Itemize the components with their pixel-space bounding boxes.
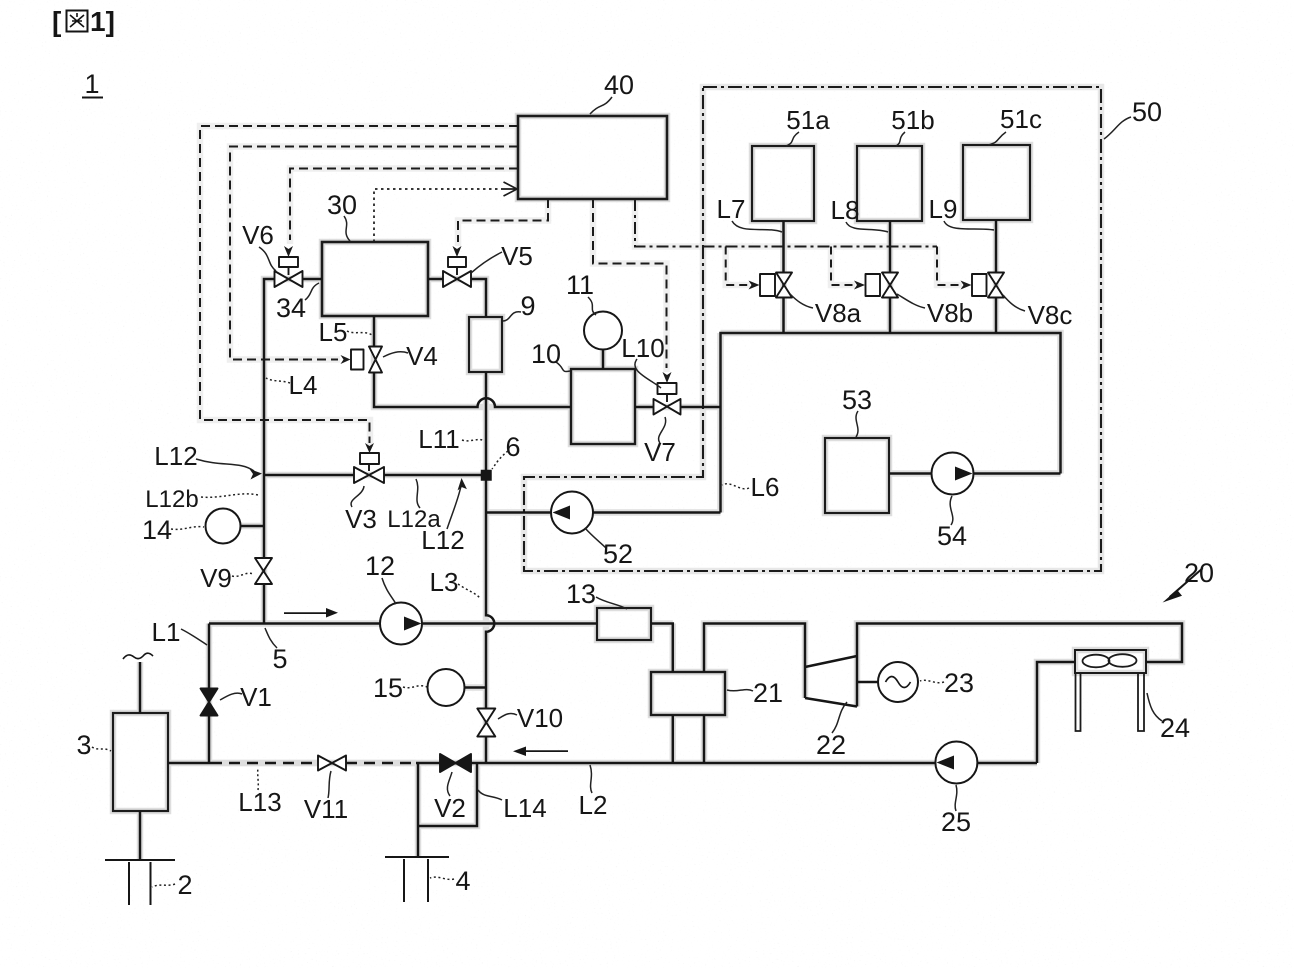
svg-text:V11: V11 [304, 794, 348, 824]
valve V8b with pilot box [866, 273, 899, 298]
leader V11 [328, 771, 331, 798]
leader 51a [786, 132, 799, 146]
svg-text:L9: L9 [929, 194, 958, 224]
arrowhead of L12 lower leader [458, 478, 467, 491]
air-cooler box 24 [1075, 650, 1146, 673]
sensor 15 [428, 669, 465, 706]
svg-text:12: 12 [365, 551, 395, 581]
leader 54 [950, 496, 953, 525]
arrowhead into V8a pilot [749, 281, 760, 290]
svg-text:V6: V6 [242, 220, 274, 250]
leader V10 [498, 714, 517, 719]
node 6 junction [482, 471, 491, 480]
wire box30 to V5 [428, 278, 443, 281]
arrowhead of L12 upper leader [250, 469, 263, 480]
wire L3/L12 vertical with hop over L1 [486, 372, 494, 763]
leader V8a [790, 294, 813, 308]
svg-text:V2: V2 [434, 793, 466, 823]
leader 6 [492, 451, 508, 469]
wire L2 solid right part [416, 762, 1037, 765]
leader 4 [430, 877, 454, 879]
svg-text:V9: V9 [200, 563, 232, 593]
control drop to V8c [937, 247, 960, 286]
leader 12 [382, 578, 396, 604]
svg-text:3: 3 [76, 730, 91, 760]
valve V1 (closed, filled) [201, 689, 218, 716]
svg-text:[: [ [52, 6, 61, 37]
leader 11 [588, 297, 596, 315]
svg-text:V8a: V8a [815, 298, 862, 328]
wire L12 horizontal left of V3 [264, 474, 354, 477]
svg-text:V4: V4 [406, 341, 438, 371]
wire L5 lower and L11 horizontal with hop over vertical [374, 373, 571, 407]
svg-text:V8c: V8c [1028, 300, 1073, 330]
leader 40 [590, 97, 612, 114]
svg-text:L7: L7 [717, 194, 746, 224]
svg-text:L10: L10 [621, 333, 664, 363]
control drop to V8a [726, 247, 748, 286]
valve V4 with pilot box [351, 347, 382, 373]
fan blade right (24) [1109, 654, 1137, 667]
leader V2 [447, 772, 452, 796]
device box 9 [469, 317, 502, 372]
leader L5 [347, 331, 372, 335]
arrowhead into V3 pilot [365, 443, 374, 453]
wire sensor 14 stub [240, 525, 264, 528]
svg-text:L11: L11 [418, 424, 459, 454]
svg-text:14: 14 [142, 515, 172, 545]
wire to supply 4 [417, 763, 420, 857]
valve V5 [443, 257, 471, 287]
generator 23 [878, 662, 918, 702]
leader V7 [659, 417, 666, 443]
wire condenser riser to turbine inlet [704, 624, 805, 699]
leader 50 [1104, 117, 1131, 139]
svg-text:50: 50 [1132, 97, 1162, 127]
wire tank bottom stub [139, 811, 142, 860]
wire L14 bypass loop [418, 763, 477, 826]
wire condenser 21 outlet left [672, 715, 675, 763]
wire L13 dashed segment b [346, 762, 416, 765]
leader L12a [416, 479, 420, 508]
wire L12b / L4 vertical with V6 branch [264, 279, 275, 624]
arrowhead into V6 pilot [284, 246, 293, 257]
arrowhead into V5 pilot [453, 246, 462, 257]
leader V8c [1003, 295, 1025, 311]
arrowhead into V7 pilot [663, 372, 672, 383]
svg-text:V3: V3 [345, 504, 377, 534]
consumer box 51a [752, 146, 814, 221]
control drop to V8b [831, 247, 853, 286]
leader 10 [556, 362, 570, 372]
wire L6 [486, 511, 721, 514]
leader L4 [266, 378, 290, 383]
svg-text:5: 5 [272, 644, 287, 674]
wire tank top stub [139, 662, 142, 713]
svg-text:V7: V7 [644, 437, 676, 467]
flow arrow on L2 [513, 747, 568, 757]
facility boundary 50 (chain line) [524, 87, 1101, 571]
arrow leader of label 20 [1163, 568, 1204, 603]
svg-text:L5: L5 [319, 317, 348, 347]
svg-text:15: 15 [373, 673, 403, 703]
svg-text:1]: 1] [90, 6, 115, 37]
valve V10 [477, 709, 495, 737]
leader L2 [590, 765, 592, 793]
svg-text:51a: 51a [786, 105, 830, 135]
leader 53 [856, 411, 858, 437]
device box 13 [597, 608, 651, 640]
valve V6 [275, 257, 303, 287]
arrowhead into V8b pilot [854, 281, 865, 290]
wire box10 to V7 [635, 406, 654, 409]
wire V5 to box 9 [471, 279, 486, 317]
consumer box 51b [857, 146, 922, 221]
svg-text:L2: L2 [579, 790, 608, 820]
wire V1 branch vertical [208, 624, 211, 764]
control bus 40 to V8 valves [635, 199, 937, 247]
pump 54 [932, 453, 974, 495]
sensor arrow into controller 40 [502, 182, 517, 196]
cooler leg left [1076, 673, 1081, 731]
leader 22 [832, 702, 847, 733]
svg-text:6: 6 [505, 432, 520, 462]
wire box53 to pump54 to manifold [889, 472, 1061, 475]
leader 9 [503, 312, 521, 321]
flow arrow on L1 [284, 608, 338, 618]
leader V4 [383, 352, 408, 357]
svg-text:21: 21 [753, 678, 783, 708]
svg-text:51c: 51c [1000, 104, 1042, 134]
svg-text:13: 13 [566, 579, 596, 609]
svg-text:52: 52 [603, 539, 633, 569]
leader V9 [232, 573, 253, 576]
svg-text:9: 9 [520, 291, 535, 321]
svg-text:20: 20 [1184, 558, 1214, 588]
svg-text:L12b: L12b [145, 486, 198, 513]
kanji 図 glyph [67, 11, 88, 32]
controller box 40 [518, 116, 667, 199]
leader V5 [471, 252, 502, 273]
turbine 22 right side and steam line to cooler [857, 624, 1182, 707]
consumer box 51c [963, 145, 1030, 220]
leader 34 [305, 283, 319, 300]
svg-text:53: 53 [842, 385, 872, 415]
svg-text:L8: L8 [831, 195, 860, 225]
valve V8a with pilot box [760, 273, 792, 298]
leader L14 [478, 790, 502, 800]
svg-text:23: 23 [944, 668, 974, 698]
svg-text:L14: L14 [503, 793, 546, 823]
leader 25 [955, 785, 957, 811]
turbine 22 top slant [805, 656, 857, 667]
control line 40 to V5 [458, 199, 548, 242]
valve V11 [318, 756, 346, 771]
wire L13 dashed segment a [211, 762, 318, 765]
leader V3 [351, 486, 364, 507]
svg-text:4: 4 [455, 866, 470, 896]
leader L12 upper with arrow [196, 459, 254, 471]
leader L12b [201, 494, 258, 497]
arrowhead into V8c pilot [961, 281, 972, 290]
cooler leg right [1138, 673, 1144, 731]
svg-text:L6: L6 [751, 472, 780, 502]
leader 2 [152, 884, 175, 887]
leader 23 [920, 680, 944, 683]
leader 51b [896, 132, 905, 146]
tank top break squiggle [123, 653, 153, 659]
svg-text:V5: V5 [501, 241, 533, 271]
leader 51c [988, 132, 1006, 145]
svg-text:V8b: V8b [927, 298, 973, 328]
leader L7 [732, 221, 782, 232]
supply symbol 4 [385, 857, 449, 902]
svg-text:1: 1 [84, 69, 99, 99]
leader 5 [265, 628, 277, 648]
leader L9 [944, 221, 994, 230]
svg-text:L12: L12 [421, 525, 464, 555]
wire cooler outlet to L2 [1037, 662, 1075, 763]
leader V6 [259, 247, 276, 271]
svg-text:L12: L12 [154, 441, 197, 471]
svg-text:V10: V10 [517, 703, 563, 733]
svg-text:30: 30 [327, 190, 357, 220]
valve V9 [255, 558, 272, 584]
wire V7 to manifold [680, 406, 721, 409]
wire condenser 21 outlet right [703, 715, 706, 763]
device box 53 [825, 438, 889, 513]
svg-text:34: 34 [276, 293, 306, 323]
svg-text:25: 25 [941, 807, 971, 837]
arrowhead into V4 pilot [341, 355, 351, 364]
wire L2 solid left part [168, 762, 211, 765]
wire sensor 15 stub [464, 686, 486, 689]
leader 52 [585, 528, 606, 548]
wire L12a horizontal right of V3 [384, 474, 484, 477]
leader L12 lower with arrow [447, 486, 461, 529]
sensor 14 [206, 509, 241, 544]
wire L5 vertical upper [373, 316, 376, 346]
leader V8b [897, 294, 925, 308]
svg-text:L4: L4 [289, 370, 318, 400]
control line 40 to V3 [200, 126, 518, 443]
manifold box (51 header) [721, 333, 1061, 513]
leader 14 [171, 527, 204, 530]
pump 25 [935, 742, 977, 784]
vaporizer box 30 [322, 242, 428, 316]
control line 40 to V4 [230, 147, 518, 360]
control line L10 (40 to V7) [593, 199, 667, 368]
svg-text:L1: L1 [152, 617, 181, 647]
leader 30 [344, 216, 350, 241]
tank 3 [113, 713, 168, 811]
supply symbol 2 [105, 860, 175, 905]
fan blade left (24) [1083, 655, 1110, 668]
valve V2 (closed, filled) [440, 754, 471, 772]
svg-text:40: 40 [604, 70, 634, 100]
wire L7 drop 51a [782, 221, 785, 333]
leader 21 [727, 690, 753, 691]
svg-text:22: 22 [816, 730, 846, 760]
wire V6 to box 30 [303, 278, 323, 281]
svg-text:L13: L13 [238, 787, 281, 817]
svg-text:L3: L3 [430, 567, 459, 597]
svg-text:2: 2 [177, 870, 192, 900]
svg-text:V1: V1 [240, 682, 272, 712]
leader L3 [458, 584, 480, 598]
condenser box 21 [651, 672, 725, 715]
wire L1 main line [209, 622, 597, 625]
valve V8c with pilot box [972, 273, 1004, 298]
leader 3 [92, 747, 111, 751]
svg-text:11: 11 [566, 270, 594, 300]
control line 40 to V6 [290, 169, 518, 241]
leader L6 [722, 484, 749, 489]
pump 52 [551, 492, 593, 534]
leader L11 [462, 440, 484, 441]
wire sensor 11 stem [602, 350, 605, 370]
sensor line 30 to 40 [374, 189, 502, 242]
svg-text:10: 10 [531, 339, 561, 369]
turbine-generator shaft [857, 681, 878, 684]
pump 12 [380, 603, 422, 645]
wire L9 drop 51c [995, 220, 998, 333]
leader L10 [635, 359, 661, 388]
valve V3 [354, 453, 384, 483]
sensor 11 [584, 312, 622, 350]
svg-text:24: 24 [1160, 713, 1190, 743]
valve V7 [654, 383, 681, 415]
svg-text:51b: 51b [891, 105, 934, 135]
svg-text:54: 54 [937, 521, 967, 551]
device box 10 [571, 369, 635, 444]
leader 15 [403, 686, 427, 688]
wire box13 to condenser drop [651, 624, 673, 673]
leader 24 [1147, 693, 1162, 721]
leader L8 [846, 222, 888, 232]
leader L13 [257, 767, 260, 790]
wire L8 drop 51b [889, 221, 892, 333]
turbine 22 bottom slant [805, 698, 857, 707]
figure tag [図1] [52, 6, 115, 37]
leader L1 [181, 629, 207, 645]
leader V1 [220, 693, 242, 700]
leader 13 [596, 597, 627, 609]
